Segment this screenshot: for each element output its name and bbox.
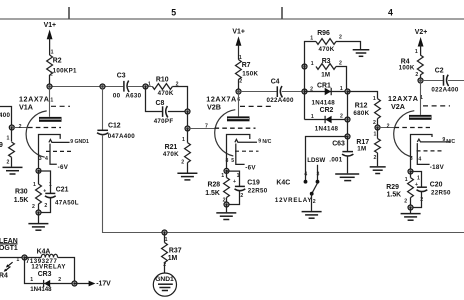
svg-text:1M: 1M <box>357 146 366 153</box>
svg-text:1.5K: 1.5K <box>14 197 29 204</box>
wire plate to C4 <box>239 91 277 93</box>
node K4A left <box>21 254 27 260</box>
ground R28 <box>216 213 236 220</box>
svg-text:1: 1 <box>373 96 376 102</box>
svg-text:2: 2 <box>339 60 342 66</box>
resistor R28 1.5K <box>205 171 229 205</box>
svg-text:2: 2 <box>240 193 243 199</box>
wire to V2A grid pin 2 <box>378 123 395 129</box>
svg-text:R7: R7 <box>242 62 251 69</box>
tube V1A 12AX7A <box>19 87 89 172</box>
ground C63 <box>335 174 359 181</box>
svg-text:V1+: V1+ <box>44 22 56 29</box>
svg-text:9 GND1: 9 GND1 <box>70 139 89 145</box>
relay coil K4A 12VRELAY <box>16 249 74 284</box>
svg-text:5: 5 <box>231 158 234 164</box>
net label CLEAN <box>0 238 18 252</box>
svg-text:A630: A630 <box>125 92 141 99</box>
svg-text:R4: R4 <box>0 272 8 279</box>
node R37 top <box>161 229 167 235</box>
svg-text:-18V: -18V <box>430 164 445 171</box>
svg-text:LDSW: LDSW <box>307 157 325 164</box>
svg-text:1: 1 <box>148 82 151 88</box>
svg-text:2: 2 <box>374 155 377 161</box>
ground R96 <box>353 50 370 57</box>
wire C4 to diode rail <box>282 91 305 93</box>
diode CR2 1N4148 <box>305 107 348 132</box>
zone tick left <box>68 7 70 19</box>
node C3 right / C8 tap <box>142 83 148 89</box>
relay contacts K4C 12VRELAY <box>275 171 320 211</box>
node V2A cathode <box>407 168 413 174</box>
svg-text:R30: R30 <box>15 188 28 195</box>
resistor R12 680K <box>353 96 380 128</box>
node C8 right <box>184 108 190 114</box>
svg-text:1: 1 <box>340 86 343 92</box>
svg-text:-6V: -6V <box>58 164 69 171</box>
svg-text:470K: 470K <box>163 151 179 158</box>
svg-text:8: 8 <box>226 158 229 164</box>
svg-text:V2+: V2+ <box>415 29 427 36</box>
svg-text:R12: R12 <box>355 102 368 109</box>
capacitor C63 .001 <box>329 137 353 174</box>
svg-text:9: 9 <box>258 138 261 144</box>
svg-text:3: 3 <box>39 156 42 162</box>
power tail -17V <box>75 281 112 288</box>
svg-text:C12: C12 <box>108 123 121 130</box>
diode CR3 1N4148 <box>25 258 75 294</box>
svg-text:V1A: V1A <box>19 103 33 112</box>
svg-text:4: 4 <box>388 7 393 17</box>
svg-text:7: 7 <box>205 124 208 130</box>
svg-text:5: 5 <box>171 7 176 17</box>
wire rail down to grid node <box>187 112 189 129</box>
svg-text:12VRELAY: 12VRELAY <box>275 197 312 204</box>
resistor R10 470K <box>148 77 188 112</box>
svg-text:2: 2 <box>339 35 342 41</box>
wire to V2B grid pin 7 <box>188 124 215 130</box>
svg-text:12VRELAY: 12VRELAY <box>31 264 66 271</box>
svg-text:K4C: K4C <box>276 180 290 187</box>
svg-text:2: 2 <box>239 79 242 85</box>
svg-text:C3: C3 <box>117 73 126 80</box>
wire CR1 out to R12 <box>348 92 378 99</box>
capacitor C4 022A400 <box>267 78 294 104</box>
svg-text:9: 9 <box>0 142 3 149</box>
node CR1 left <box>301 88 307 94</box>
wire plate bus y86 <box>50 86 124 88</box>
svg-text:2: 2 <box>58 277 61 283</box>
svg-text:C19: C19 <box>247 179 260 186</box>
wire into relay coil <box>0 257 25 259</box>
svg-text:N/C: N/C <box>262 139 271 145</box>
svg-text:1M: 1M <box>321 72 330 79</box>
svg-text:00: 00 <box>113 92 121 99</box>
svg-text:100K: 100K <box>399 65 415 72</box>
wire C12 down to bottom bus <box>103 135 464 233</box>
svg-text:1N4148: 1N4148 <box>30 286 52 293</box>
svg-text:V2B: V2B <box>207 102 221 111</box>
capacitor C19 22R50 <box>227 171 268 204</box>
capacitor C21 47A50L <box>39 171 79 213</box>
svg-text:1.5K: 1.5K <box>205 190 220 197</box>
svg-text:022A400: 022A400 <box>267 97 294 104</box>
node input <box>9 124 15 130</box>
svg-text:150K: 150K <box>242 70 258 77</box>
svg-text:1: 1 <box>417 176 420 182</box>
node R28 bottom <box>223 201 229 207</box>
capacitor C12 047A400 <box>97 87 135 141</box>
svg-text:047A400: 047A400 <box>108 133 135 140</box>
tube V2B 12AX7A <box>206 92 272 172</box>
svg-text:1N4148: 1N4148 <box>315 126 339 133</box>
svg-text:1: 1 <box>237 173 240 179</box>
svg-text:2: 2 <box>32 204 35 210</box>
chassis ground GND1 <box>153 273 176 296</box>
tube V2A 12AX7A <box>388 81 455 172</box>
svg-text:+: + <box>233 179 236 185</box>
svg-text:470K: 470K <box>158 90 174 97</box>
svg-text:C21: C21 <box>56 187 69 194</box>
svg-text:C20: C20 <box>430 181 443 188</box>
svg-text:1: 1 <box>33 182 36 188</box>
node V2B grid tap <box>184 125 190 131</box>
svg-text:1M: 1M <box>168 255 178 262</box>
power arrow V1+ (middle) <box>232 28 244 61</box>
resistor R21 470K <box>163 129 191 173</box>
svg-text:1: 1 <box>311 61 314 67</box>
wire C63 node to K4C <box>306 137 348 182</box>
svg-text:4: 4 <box>304 171 307 177</box>
ground R17 <box>370 167 386 174</box>
LED CR4 <box>0 262 13 279</box>
svg-text:2: 2 <box>404 199 407 205</box>
diode CR1 1N4148 <box>305 82 348 106</box>
svg-text:1: 1 <box>221 173 224 179</box>
svg-text:400: 400 <box>0 112 10 119</box>
ground R30 <box>28 224 48 231</box>
svg-text:470K: 470K <box>319 46 335 53</box>
svg-text:2: 2 <box>181 160 184 166</box>
wire input to V1A grid pin 2 <box>12 124 28 130</box>
node at R2 bottom <box>46 83 52 89</box>
svg-text:2: 2 <box>50 71 53 77</box>
net label LDSW <box>307 157 325 181</box>
svg-text:N/C: N/C <box>446 139 455 145</box>
ground K4C <box>302 212 322 219</box>
node R29 bottom <box>407 204 413 210</box>
svg-text:2: 2 <box>7 159 10 165</box>
wire to C2 <box>421 80 444 82</box>
node R30 bottom <box>35 209 41 215</box>
svg-text:CR2: CR2 <box>320 107 334 114</box>
node CR3 right <box>71 280 77 286</box>
svg-text:2: 2 <box>340 114 343 120</box>
svg-text:22R50: 22R50 <box>248 188 268 195</box>
svg-text:1: 1 <box>415 49 418 55</box>
svg-text:C8: C8 <box>156 100 165 107</box>
resistor R2 100KP1 <box>47 55 77 87</box>
svg-text:R2: R2 <box>53 57 62 64</box>
svg-text:GND1: GND1 <box>155 276 174 283</box>
wire left rail <box>305 42 317 120</box>
svg-text:2: 2 <box>19 124 22 130</box>
svg-text:3: 3 <box>317 171 320 177</box>
resistor R4 100K <box>399 55 424 81</box>
resistor R29 1.5K <box>386 172 413 208</box>
svg-text:1: 1 <box>51 50 54 56</box>
resistor R37 1M <box>162 233 182 274</box>
node CR2 right <box>344 116 350 122</box>
resistor R17 1M <box>356 128 380 167</box>
svg-text:470PF: 470PF <box>154 118 174 125</box>
svg-text:1N4148: 1N4148 <box>312 99 336 106</box>
zone tick right <box>281 7 283 19</box>
svg-text:1: 1 <box>405 177 408 183</box>
node C3 left <box>99 83 105 89</box>
node V1A cathode <box>35 168 41 174</box>
svg-text:1: 1 <box>30 277 33 283</box>
capacitor C2 022A400 <box>431 67 458 93</box>
svg-text:100KP1: 100KP1 <box>53 67 77 74</box>
svg-text:4: 4 <box>418 157 421 163</box>
node R7 bottom <box>235 88 241 94</box>
svg-text:R28: R28 <box>208 182 221 189</box>
svg-text:R96: R96 <box>317 30 330 37</box>
svg-text:4: 4 <box>45 156 48 162</box>
svg-text:-17V: -17V <box>96 281 111 288</box>
node R3 left <box>301 63 307 69</box>
resistor R3 1M <box>311 58 347 92</box>
svg-text:022A400: 022A400 <box>431 87 458 94</box>
svg-text:1: 1 <box>310 35 313 41</box>
power arrow V1+ (left) <box>44 22 56 56</box>
node CR1 right <box>344 88 350 94</box>
svg-text:CR3: CR3 <box>38 271 52 278</box>
svg-text:CR1: CR1 <box>317 82 331 89</box>
node R12 bottom <box>374 124 380 130</box>
svg-text:1: 1 <box>16 257 19 263</box>
svg-text:3: 3 <box>410 156 413 162</box>
node R4 bottom <box>417 77 423 83</box>
svg-text:680K: 680K <box>353 110 369 117</box>
ground R9 <box>3 167 23 174</box>
resistor R30 1.5K <box>14 171 42 213</box>
svg-text:R10: R10 <box>156 77 169 84</box>
node C63 top <box>344 133 350 139</box>
svg-text:1: 1 <box>182 137 185 143</box>
svg-text:C4: C4 <box>271 78 280 85</box>
svg-text:2: 2 <box>44 203 47 209</box>
svg-text:2: 2 <box>415 72 418 78</box>
wire to ground <box>38 213 40 224</box>
capacitor C3 <box>113 73 142 100</box>
sheet top border line <box>0 18 464 20</box>
node V2B cathode <box>223 168 229 174</box>
svg-text:1: 1 <box>49 182 52 188</box>
ground R29 <box>401 214 421 221</box>
input corner wire (left edge) <box>0 107 12 128</box>
svg-text:1: 1 <box>7 135 10 141</box>
power arrow V2+ <box>415 29 427 55</box>
capacitor C8 470PF <box>146 87 188 126</box>
svg-text:1: 1 <box>50 97 53 103</box>
capacitor C20 22R50 <box>411 172 451 208</box>
svg-text:OGT1: OGT1 <box>0 245 18 252</box>
ground R21 <box>177 173 197 180</box>
svg-text:9: 9 <box>442 137 445 143</box>
svg-text:22R50: 22R50 <box>431 190 451 197</box>
svg-text:2: 2 <box>313 199 316 205</box>
svg-text:R29: R29 <box>386 184 399 191</box>
wire C2 to edge <box>448 80 464 82</box>
resistor R9 <box>0 128 14 167</box>
wire right rail <box>347 92 349 137</box>
svg-text:-6V: -6V <box>245 164 256 171</box>
svg-text:1: 1 <box>374 131 377 137</box>
svg-text:C2: C2 <box>435 67 444 74</box>
svg-text:2: 2 <box>387 123 390 129</box>
wire C3 to R10 <box>127 86 152 88</box>
svg-text:C63: C63 <box>332 141 345 148</box>
resistor R96 470K <box>310 30 360 53</box>
svg-text:.001: .001 <box>329 156 343 163</box>
svg-text:V2A: V2A <box>391 102 405 111</box>
wire to ground <box>410 208 412 214</box>
resistor R7 150K <box>235 60 258 92</box>
svg-text:47A50L: 47A50L <box>55 200 79 207</box>
svg-text:1.5K: 1.5K <box>387 192 402 199</box>
svg-text:R37: R37 <box>169 248 182 255</box>
svg-text:V1+: V1+ <box>232 28 244 35</box>
wire to ground <box>226 205 228 213</box>
